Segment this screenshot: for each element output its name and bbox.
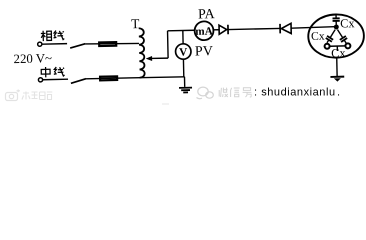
capacitor Cx (right diagonal) xyxy=(334,28,349,46)
ammeter PA (mA) xyxy=(194,21,213,40)
wire: link stub xyxy=(336,46,338,51)
svg-text:220 V~: 220 V~ xyxy=(13,51,52,66)
ground (main) xyxy=(183,77,185,87)
scan speck xyxy=(162,103,169,104)
terminal: phase input xyxy=(38,42,42,46)
wire: V meter drop xyxy=(182,30,184,43)
wire xyxy=(42,43,67,46)
transformer T winding xyxy=(139,28,145,78)
svg-text:Cx: Cx xyxy=(331,46,346,60)
fuse FU1 xyxy=(99,42,116,46)
label 相线 (phase line) xyxy=(41,30,65,41)
wire: top rail xyxy=(168,29,195,32)
svg-text:Cx: Cx xyxy=(311,30,325,43)
svg-text:mA: mA xyxy=(195,26,213,38)
svg-text:.: . xyxy=(337,87,340,99)
wire: V meter to bottom rail xyxy=(182,59,184,77)
watermark logo (bottom left) xyxy=(6,90,21,101)
wire xyxy=(229,28,280,29)
switch S1 blade (phase) xyxy=(70,44,85,48)
svg-text:PA: PA xyxy=(198,7,216,22)
voltmeter PV (V) xyxy=(175,44,191,60)
switch S2 blade (neutral) xyxy=(71,79,86,84)
terminal: neutral input xyxy=(38,78,42,82)
diode D2 (pointing left) xyxy=(279,24,281,33)
fuse FU2 xyxy=(100,76,117,80)
wire: mA to diode D1 xyxy=(214,29,219,31)
svg-text:Cx: Cx xyxy=(340,16,355,30)
svg-text:V: V xyxy=(179,47,187,59)
watermark text 微信号: shudianxianlu xyxy=(219,88,251,97)
svg-text:: shudianxianlu: : shudianxianlu xyxy=(254,87,336,99)
capacitor selector enclosure xyxy=(308,14,364,58)
diode D1 xyxy=(219,25,227,34)
wire xyxy=(85,43,139,45)
capacitor Cx (top) xyxy=(335,15,337,18)
svg-text:PV: PV xyxy=(195,44,213,59)
watermark wechat icon xyxy=(197,87,214,99)
node: selector centre xyxy=(334,24,339,29)
label 中线 (neutral line) xyxy=(41,67,64,78)
wire into selector xyxy=(291,27,334,29)
contact ring (left) xyxy=(325,44,330,49)
capacitor Cx (left diagonal) xyxy=(324,28,338,45)
wiper arrow of autotransformer xyxy=(151,57,168,59)
wire: selector to ground xyxy=(336,58,338,76)
wire xyxy=(43,78,68,81)
wire: bottom rail to ground junction xyxy=(86,77,185,79)
wire: ring link xyxy=(330,45,345,47)
contact ring (right) xyxy=(345,43,350,48)
wire: wiper up to top rail xyxy=(167,31,170,58)
ground (selector) xyxy=(330,76,344,78)
